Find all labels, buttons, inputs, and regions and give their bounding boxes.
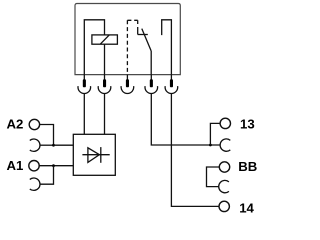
- contact actuator stem: [137, 27, 139, 35]
- contact fixed bar: [138, 34, 148, 36]
- wire junction up to circle 13: [210, 123, 220, 145]
- svg-text:A2: A2: [7, 117, 24, 132]
- wire 14 run (cup5 down and right): [171, 94, 219, 207]
- wire A2 to junction: [40, 125, 54, 146]
- terminal 13 circle: [220, 118, 230, 128]
- pin 4: [150, 75, 153, 88]
- pin 3: [126, 75, 129, 88]
- wire cup2 to box top: [104, 94, 106, 135]
- socket cup 2: [98, 86, 111, 93]
- terminal BB circle: [219, 162, 229, 172]
- socket cup 4: [145, 86, 158, 93]
- terminal A2 aux semicircle: [30, 139, 40, 151]
- socket cup 3: [121, 86, 134, 93]
- pin 2: [103, 75, 106, 88]
- wire blade to pin4: [150, 51, 152, 75]
- junction A2: [52, 144, 55, 147]
- pin 1: [83, 75, 86, 88]
- svg-text:13: 13: [240, 117, 255, 132]
- relay coil K1: [92, 35, 118, 44]
- mechanical linkage (dashed): [126, 20, 128, 74]
- terminal BB aux semicircle: [219, 180, 229, 192]
- wire cup1 to box top: [83, 94, 85, 135]
- contact blade (NO contact 13-14): [142, 29, 151, 51]
- terminal 14 circle: [219, 201, 229, 211]
- svg-text:BB: BB: [238, 159, 257, 174]
- wire coil left (pin1 up and over to coil top): [84, 20, 104, 75]
- wire A1 aux to junction: [40, 166, 54, 185]
- junction 13: [209, 144, 212, 147]
- protection circuit box: [73, 134, 115, 175]
- linkage corner dash: [137, 20, 139, 24]
- svg-text:A1: A1: [7, 158, 24, 173]
- wire A2 aux to junction: [40, 144, 54, 146]
- terminal 13 aux semicircle: [220, 139, 230, 151]
- wire 14 staple (pin5 up over and down): [162, 20, 172, 75]
- terminal A2 circle: [29, 119, 39, 129]
- wire coil bottom to pin2: [104, 44, 106, 74]
- relay module body K1: [75, 4, 180, 75]
- terminal A1 circle: [29, 161, 39, 171]
- wire A2 junction to box: [54, 144, 74, 146]
- svg-text:14: 14: [239, 200, 254, 215]
- mechanical linkage horizontal (dashed): [127, 19, 137, 21]
- socket cup 1: [78, 86, 91, 93]
- wire A1 to box: [39, 165, 73, 167]
- wire 13 run (cup4 down and right): [151, 94, 220, 146]
- terminal A1 aux semicircle: [30, 178, 40, 190]
- junction A1: [52, 164, 55, 167]
- socket cup 5: [165, 86, 178, 93]
- wire BB bridge: [207, 167, 220, 187]
- diode D1: [82, 147, 109, 163]
- pin 5: [170, 75, 173, 88]
